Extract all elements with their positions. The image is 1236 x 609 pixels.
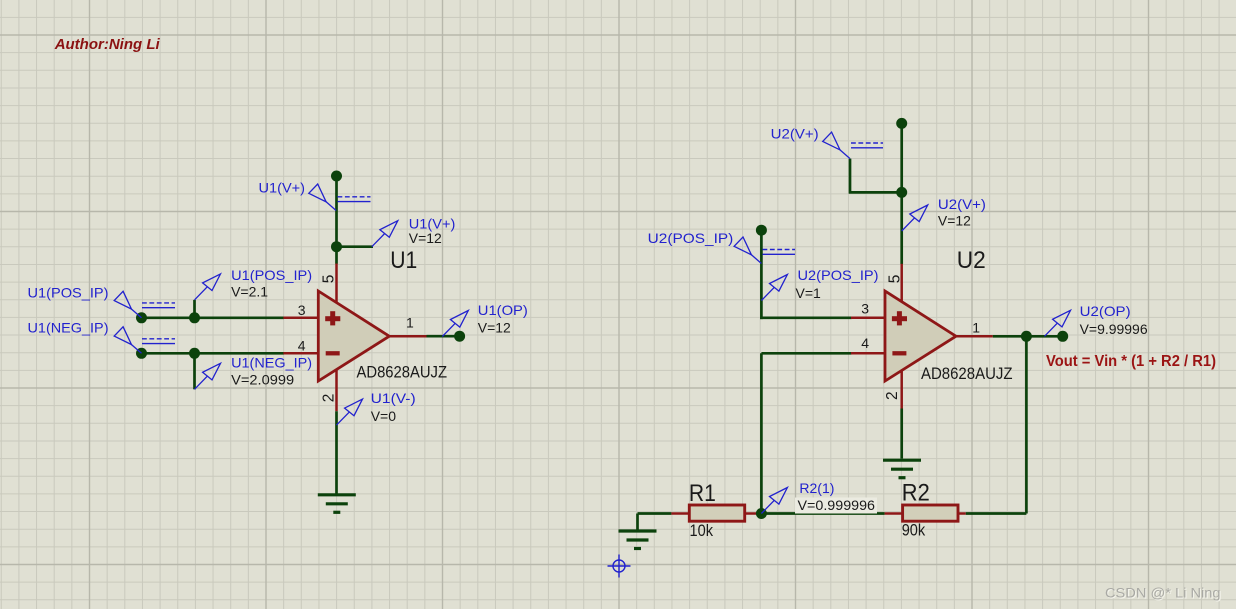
value V=0.999996 with backing box [795,498,877,514]
probe arrow U1(NEG_IP) left [114,327,141,354]
probe arrow U1(V+) left [309,184,336,211]
svg-text:U2: U2 [957,247,986,274]
wire U1 V+ vertical [335,176,338,264]
svg-text:10k: 10k [690,522,714,540]
wire U2 V+ branch L [850,159,902,193]
probe arrow U2(POS_IP) right [761,275,787,301]
svg-text:U2(POS_IP): U2(POS_IP) [648,230,734,246]
svg-text:V=12: V=12 [478,319,511,335]
svg-text:U2(POS_IP): U2(POS_IP) [798,267,879,283]
junction U2 OP [1021,331,1032,342]
probe arrow U2(OP) [1045,310,1071,336]
probe arrow R2(1) [761,488,787,514]
wire U1 POS_IP stub [193,300,196,318]
junction U1 V+ branch [331,241,342,252]
svg-text:R1: R1 [689,480,716,507]
pin R2 right [955,512,966,515]
origin marker [608,555,631,578]
svg-text:V=9.99996: V=9.99996 [1080,321,1148,337]
node U1 POS_IP end [136,312,147,323]
svg-text:U1(POS_IP): U1(POS_IP) [28,284,109,300]
pin 5 U2 [900,264,903,303]
wire U2 V- down [900,409,903,459]
ground R1 [619,531,657,549]
op-amp U2 plus mark [892,311,907,325]
probe arrow U1(POS_IP) right [195,274,221,300]
svg-text:5: 5 [320,275,337,284]
svg-text:1: 1 [972,320,980,336]
wire U1 OP [427,335,460,338]
node U2 POS_IP top [756,225,767,236]
svg-text:V=12: V=12 [409,230,442,246]
pin 5 U1 [335,264,338,304]
wire R1 ground drop [636,514,639,530]
junction U1 V+ top [331,171,342,182]
op-amp U1 [318,291,389,381]
op-amp U1 minus mark [326,351,340,355]
svg-text:Vout = Vin * (1 + R2 / R1): Vout = Vin * (1 + R2 / R1) [1046,353,1216,370]
wire U1 V+ branch [337,245,374,248]
node U1 OP end [454,331,465,342]
probe arrow U1(V+) right [372,221,398,247]
pin 4 U1 [283,352,318,355]
junction U1 POS_IP [189,312,200,323]
svg-text:2: 2 [320,394,337,403]
svg-text:R2: R2 [902,479,930,506]
probe arrow U1(POS_IP) left [114,291,141,318]
junction U2 V+ top [896,118,907,129]
node U1 NEG_IP end [136,348,147,359]
ground U2 [883,460,921,478]
resistor R1 [689,505,744,521]
svg-text:3: 3 [298,302,306,318]
wire U2 V+ vertical [900,123,903,264]
svg-text:U1(NEG_IP): U1(NEG_IP) [231,355,312,371]
wire U2 NEG feedback horizontal [761,352,851,355]
probe arrow U1(V-) [337,399,363,425]
pin 1 U2 [955,335,993,338]
junction R1 R2 node [756,508,767,519]
svg-text:2: 2 [884,391,901,400]
svg-text:AD8628AUJZ: AD8628AUJZ [357,363,448,381]
svg-text:V=0.999996: V=0.999996 [798,497,876,513]
op-amp U1 plus mark [325,311,340,325]
probe arrow U1(NEG_IP) right [195,363,221,389]
svg-text:3: 3 [861,300,869,316]
op-amp U2 [885,291,956,381]
probe arrow U2(POS_IP) left [734,237,761,264]
pin 4 U2 [851,352,885,355]
svg-text:V=2.0999: V=2.0999 [231,372,294,388]
pin 2 U2 [900,370,903,409]
junction U1 NEG_IP [189,348,200,359]
junction U2 V+ branch [896,187,907,198]
pin 2 U1 [335,370,338,412]
source glyph U1(POS_IP) [142,303,175,308]
wire R1-R2 node [761,512,884,515]
probe arrow U1(OP) [442,311,468,337]
svg-text:U1(NEG_IP): U1(NEG_IP) [28,320,109,336]
svg-text:5: 5 [886,275,903,284]
svg-text:Author:Ning Li: Author:Ning Li [54,36,161,53]
wire to R2 right [966,512,1027,515]
source glyph U2(POS_IP) [763,250,796,255]
svg-text:V=1: V=1 [796,285,822,301]
svg-text:CSDN @* Li Ning: CSDN @* Li Ning [1105,586,1221,601]
wire U2 POS_IP horizontal [760,316,851,319]
pin 3 U1 [283,317,318,320]
wire U1 POS_IP [142,316,285,319]
svg-text:R2(1): R2(1) [799,480,834,496]
pin 3 U2 [851,317,885,320]
node U2 OP end [1057,331,1068,342]
resistor R2 [903,505,958,521]
probe arrow U2(V+) left [823,132,850,159]
source glyph U1(V+) [338,197,371,202]
pin R2 left [885,512,904,515]
wire U2 OP [993,335,1063,338]
wire U1 V- down [335,411,338,493]
pin R1 right [744,512,762,515]
wire U2 POS_IP vertical [760,230,763,319]
pin 1 U1 [388,335,427,338]
pin R1 left [671,512,690,515]
svg-text:90k: 90k [902,522,926,540]
wire U2 feedback vertical [760,353,763,513]
op-amp U2 minus mark [892,351,906,355]
svg-text:V=2.1: V=2.1 [231,284,268,300]
source glyph U1(NEG_IP) [142,339,175,344]
wire U1 NEG_IP [142,352,285,355]
svg-text:U1(POS_IP): U1(POS_IP) [231,267,312,283]
ground U1 [318,495,356,513]
wire U2 OP down [1025,336,1028,513]
source glyph U2(V+) [851,143,883,148]
svg-text:V=12: V=12 [938,213,971,229]
probe arrow U2(V+) right [902,205,928,231]
svg-text:U2(V+): U2(V+) [771,125,819,141]
svg-text:U2(OP): U2(OP) [1080,303,1131,319]
wire U1 NEG_IP stub [193,353,196,389]
svg-text:1: 1 [406,314,414,330]
svg-text:AD8628AUJZ: AD8628AUJZ [921,365,1013,383]
svg-text:U1(OP): U1(OP) [478,302,528,318]
svg-text:U1(V-): U1(V-) [371,390,416,406]
svg-text:4: 4 [861,335,869,351]
svg-text:U2(V+): U2(V+) [938,196,986,212]
svg-text:U1(V+): U1(V+) [259,180,306,196]
svg-text:4: 4 [298,338,306,354]
svg-text:U1: U1 [390,247,417,274]
wire R1 left [638,512,672,515]
svg-text:V=0: V=0 [371,408,397,424]
